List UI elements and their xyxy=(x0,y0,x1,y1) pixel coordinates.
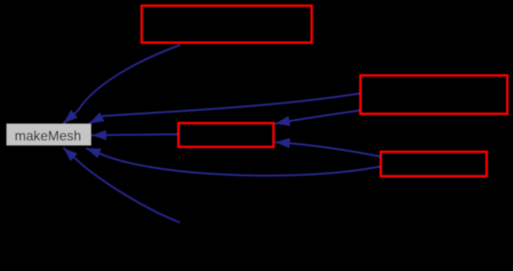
edge B->C xyxy=(275,111,359,124)
edge C->makeMesh xyxy=(92,133,178,136)
edge D->makeMesh xyxy=(86,148,380,175)
node box B (right caller) xyxy=(360,75,507,113)
node makeMesh xyxy=(6,124,91,146)
edge B->makeMesh xyxy=(89,94,359,124)
edge (clipped caller)->makeMesh xyxy=(63,148,180,223)
edge A->makeMesh xyxy=(64,45,181,123)
node box D (bottom-right caller) xyxy=(381,152,487,176)
node box A (top caller) xyxy=(142,6,312,43)
node box C (middle caller) xyxy=(178,123,273,147)
svg-text:makeMesh: makeMesh xyxy=(15,129,81,144)
edge D->C xyxy=(275,142,380,156)
